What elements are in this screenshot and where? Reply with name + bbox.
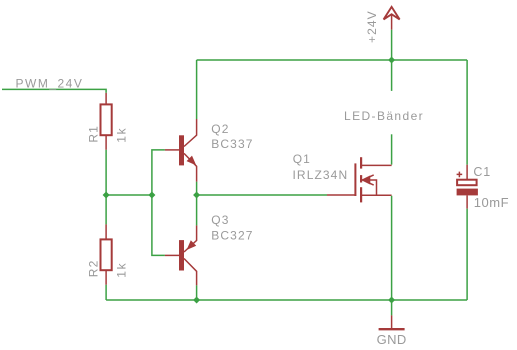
wire LED stub from top rail [391, 60, 393, 91]
resistor R1 [101, 93, 112, 150]
resistor R2 [101, 224, 112, 284]
junction node bottom rail Q3 [193, 297, 200, 304]
svg-text:LED-Bänder: LED-Bänder [344, 109, 424, 123]
svg-text:BC327: BC327 [211, 228, 253, 242]
wire Q2 base [152, 150, 165, 195]
svg-text:Q3: Q3 [211, 213, 229, 227]
svg-text:C1: C1 [473, 165, 491, 179]
ground GND symbol [379, 315, 405, 329]
wire +24V to top rail [391, 30, 393, 60]
junction node emitters/gate [193, 192, 200, 199]
wire Q2 emitter down to node [196, 182, 198, 195]
transistor Q2 BC337 [165, 119, 197, 182]
transistor Q3 BC327 [165, 225, 197, 285]
svg-text:R1: R1 [87, 125, 101, 143]
svg-text:1k: 1k [114, 127, 128, 143]
wire Q3 emitter up to node [196, 195, 198, 225]
svg-text:BC337: BC337 [211, 137, 253, 151]
svg-text:+24V: +24V [365, 10, 379, 43]
wire Q3 collector to bottom rail [196, 285, 198, 300]
wire C1 branch top [466, 60, 468, 165]
wire Q3 base [152, 195, 165, 255]
wire GND stub [391, 300, 393, 315]
svg-text:PWM_24V: PWM_24V [16, 76, 84, 90]
wire top +24V rail [197, 59, 468, 61]
wire left vertical R1 to R2 [105, 150, 107, 225]
junction node top rail / LED [388, 57, 395, 64]
mosfet Q1 IRLZ34N [327, 157, 392, 202]
svg-text:1k: 1k [114, 262, 128, 278]
supply symbol +24V [384, 7, 400, 30]
svg-text:R2: R2 [87, 260, 101, 278]
svg-text:IRLZ34N: IRLZ34N [293, 168, 349, 182]
svg-text:10mF: 10mF [474, 195, 509, 210]
svg-text:Q2: Q2 [211, 122, 229, 136]
capacitor C1 [457, 165, 478, 209]
wire bottom rail [106, 299, 467, 301]
svg-text:GND: GND [377, 332, 407, 347]
svg-text:Q1: Q1 [293, 152, 311, 166]
wire R2 bottom to bottom rail [105, 285, 107, 300]
junction node bases [148, 192, 155, 199]
wire gate net [197, 194, 327, 196]
wire PWM_24V horizontal [2, 89, 106, 93]
junction node divider R1/R2 [103, 192, 110, 199]
wire middle rail divider node [106, 194, 152, 196]
wire Q1 source to bottom rail [391, 196, 393, 300]
wire LED stub to Q1 drain [391, 134, 393, 164]
wire Q2 collector to top rail [196, 60, 198, 119]
wire C1 bottom to bottom rail [466, 209, 468, 300]
junction node bottom rail GND [388, 297, 395, 304]
